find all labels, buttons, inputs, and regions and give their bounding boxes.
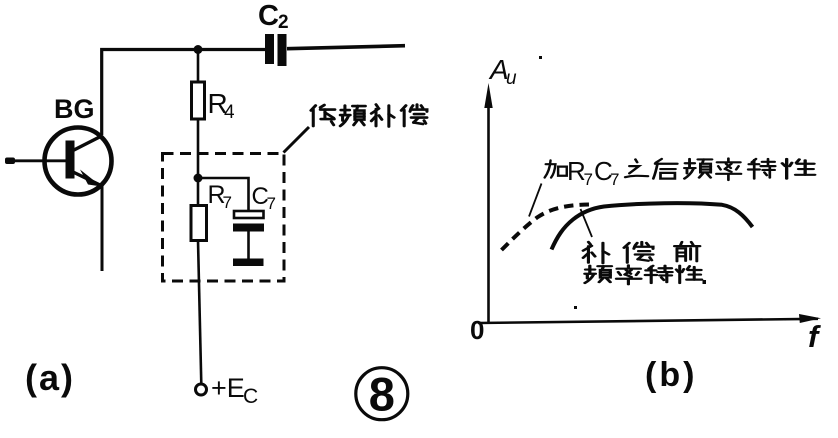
svg-text:u: u [506, 68, 517, 89]
svg-text:7: 7 [267, 194, 276, 213]
svg-text:7: 7 [610, 170, 619, 189]
svg-text:7: 7 [223, 193, 232, 212]
svg-text:C: C [258, 0, 279, 32]
svg-text:7: 7 [584, 170, 593, 189]
svg-text:4: 4 [224, 102, 235, 123]
svg-text:(b): (b) [645, 356, 697, 394]
svg-text:C: C [243, 385, 258, 408]
svg-text:+E: +E [211, 373, 245, 403]
svg-text:0: 0 [470, 315, 484, 345]
svg-text:f: f [808, 319, 821, 354]
svg-text:8: 8 [369, 368, 395, 421]
svg-text:BG: BG [54, 94, 95, 124]
svg-text:(a): (a) [25, 357, 75, 398]
svg-text:2: 2 [278, 12, 289, 33]
